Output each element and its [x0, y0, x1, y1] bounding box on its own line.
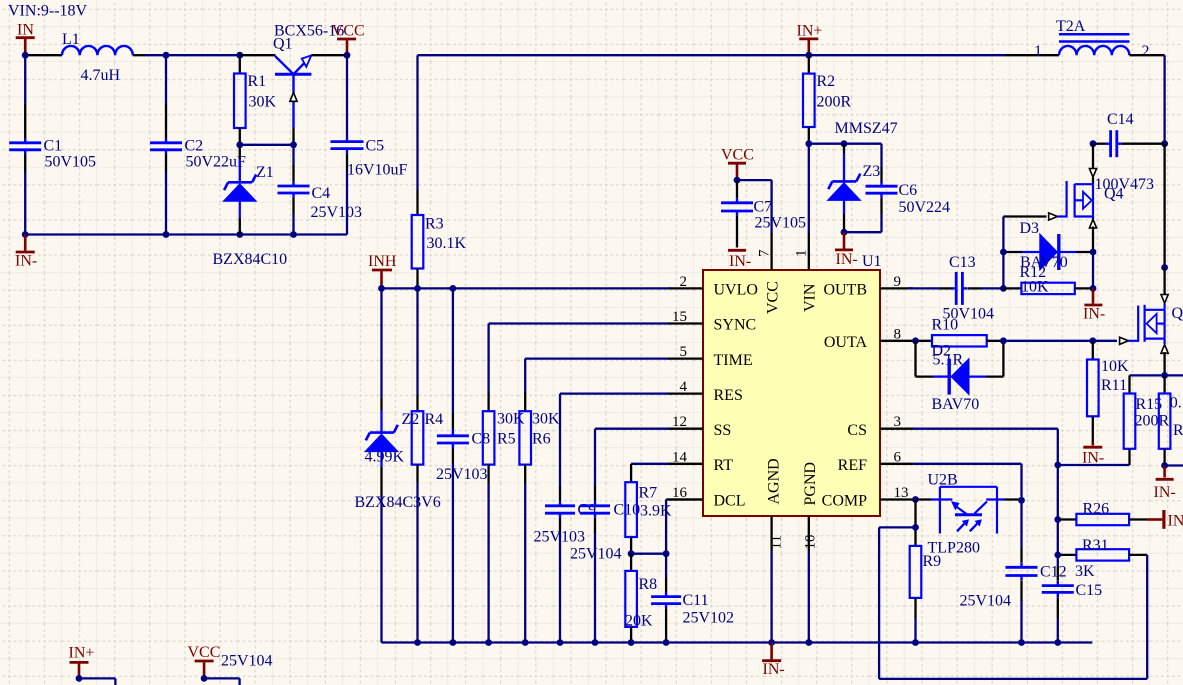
- power port VCC mid: [721, 147, 754, 181]
- U1 pin 16 DCL: [669, 485, 746, 510]
- resistor R31: [1058, 537, 1147, 580]
- wire: [240, 54, 347, 56]
- diode D2: [916, 341, 1004, 413]
- junction: [1089, 337, 1096, 344]
- U1 pin 1 VIN: [794, 233, 819, 312]
- junction: [912, 496, 919, 503]
- power port IN- under C7: [728, 250, 751, 269]
- svg-text:VCC: VCC: [764, 281, 781, 314]
- capacitor C13: [943, 254, 1004, 323]
- svg-text:14: 14: [672, 449, 688, 465]
- wire: [79, 678, 115, 685]
- svg-text:IN-: IN-: [836, 251, 858, 268]
- svg-text:R4: R4: [425, 411, 444, 428]
- wire: [1003, 287, 1021, 289]
- junction: [76, 675, 83, 682]
- capacitor C12: [960, 563, 1067, 610]
- resistor R4: [412, 288, 443, 642]
- svg-text:VIN: VIN: [802, 283, 819, 312]
- U1 pin 15 SYNC: [669, 309, 757, 334]
- junction: [22, 231, 29, 238]
- svg-text:R9: R9: [923, 553, 942, 570]
- svg-text:4: 4: [680, 379, 688, 395]
- junction: [557, 639, 564, 646]
- junction: [414, 285, 421, 292]
- junction: [344, 52, 351, 59]
- svg-text:R7: R7: [639, 485, 658, 502]
- U1 pin 6 REF: [838, 449, 913, 474]
- junction: [663, 639, 670, 646]
- resistor R9: [910, 500, 941, 643]
- U1 pin 2 UVLO: [669, 274, 758, 299]
- svg-text:C8: C8: [472, 430, 491, 447]
- capacitor C11: [651, 592, 734, 643]
- svg-text:25V104: 25V104: [570, 545, 622, 562]
- capacitor C9: [534, 501, 597, 642]
- U1 pin 14 RT: [669, 449, 734, 474]
- svg-text:PGND: PGND: [802, 462, 819, 506]
- svg-text:1: 1: [1034, 43, 1042, 60]
- U1 pin 11 AGND: [766, 458, 785, 642]
- wire: [844, 231, 882, 233]
- junction: [485, 639, 492, 646]
- junction: [1090, 140, 1097, 147]
- junction: [1090, 285, 1097, 292]
- junction: [805, 639, 812, 646]
- wire: [1092, 252, 1094, 288]
- svg-text:Z2: Z2: [402, 411, 420, 428]
- svg-text:12: 12: [672, 414, 687, 430]
- junction: [1054, 462, 1061, 469]
- svg-text:IN-: IN-: [15, 252, 37, 269]
- svg-text:TIME: TIME: [714, 352, 753, 369]
- svg-text:16V10uF: 16V10uF: [347, 162, 408, 179]
- resistor R10: [932, 317, 1004, 369]
- wire: [631, 553, 666, 555]
- junction: [663, 550, 670, 557]
- capacitor C1: [9, 55, 96, 234]
- wire: [1165, 464, 1183, 466]
- junction: [378, 285, 385, 292]
- wire VCC pin net: [737, 180, 772, 233]
- junction: [805, 140, 812, 147]
- resistor R11: [1087, 341, 1129, 442]
- capacitor C7: [721, 180, 806, 247]
- wire: [809, 143, 882, 145]
- svg-text:C9: C9: [578, 501, 597, 518]
- capacitor C14: [1093, 111, 1165, 193]
- zener diode Z1: [213, 145, 288, 268]
- junction: [1018, 497, 1025, 504]
- U1 pin 13 COMP: [822, 485, 913, 510]
- svg-text:VCC: VCC: [721, 147, 754, 164]
- svg-text:C11: C11: [683, 592, 709, 609]
- svg-text:11: 11: [769, 535, 785, 549]
- resistor R1: [234, 55, 277, 145]
- svg-text:R26: R26: [1083, 501, 1110, 518]
- wire TIME net: [525, 359, 670, 412]
- junction: [414, 639, 421, 646]
- svg-text:10K: 10K: [1021, 279, 1049, 296]
- svg-text:50V224: 50V224: [899, 199, 951, 216]
- svg-text:D3: D3: [1020, 220, 1040, 237]
- diode D3: [1003, 220, 1093, 271]
- junction: [1054, 552, 1061, 559]
- power port IN- bottom: [762, 643, 785, 679]
- wire REF net: [913, 464, 1022, 563]
- svg-text:BAV70: BAV70: [932, 396, 980, 413]
- svg-text:IN+: IN+: [1168, 513, 1183, 530]
- svg-text:R6: R6: [532, 430, 551, 447]
- power port IN+: [797, 22, 823, 55]
- wire CS net: [913, 429, 1058, 581]
- svg-text:C6: C6: [899, 182, 918, 199]
- junction: [628, 639, 635, 646]
- svg-text:R8: R8: [639, 576, 658, 593]
- junction: [163, 231, 170, 238]
- stray value label 25V104: [221, 653, 273, 670]
- junction: [450, 285, 457, 292]
- resistor R6: [519, 411, 560, 643]
- capacitor C8: [436, 288, 490, 642]
- junction: [805, 52, 812, 59]
- U1 pin 8 OUTA: [824, 326, 913, 351]
- svg-text:R31: R31: [1082, 537, 1109, 554]
- svg-text:15: 15: [672, 309, 687, 325]
- U1 pin 3 CS: [847, 414, 913, 439]
- capacitor C10: [570, 501, 640, 642]
- svg-text:SS: SS: [714, 422, 732, 439]
- svg-text:C15: C15: [1076, 582, 1103, 599]
- svg-text:200R: 200R: [1135, 413, 1170, 430]
- svg-text:1: 1: [794, 250, 810, 258]
- wire: [1058, 464, 1130, 466]
- inductor L1: [62, 31, 133, 84]
- net label VIN:9--18V: [8, 3, 88, 20]
- transistor Q4: [1067, 144, 1124, 252]
- power port INH: [368, 253, 397, 288]
- svg-text:4.7uH: 4.7uH: [81, 67, 121, 84]
- svg-text:R11: R11: [1101, 377, 1127, 394]
- svg-text:6: 6: [894, 449, 902, 465]
- svg-text:50V22uF: 50V22uF: [186, 153, 247, 170]
- junction: [1000, 337, 1007, 344]
- resistor R2: [803, 55, 852, 144]
- svg-text:7: 7: [757, 249, 773, 257]
- svg-text:R2: R2: [817, 73, 836, 90]
- wire: [25, 54, 62, 56]
- svg-text:C12: C12: [1040, 564, 1067, 581]
- svg-text:C14: C14: [1107, 111, 1134, 128]
- svg-text:MMSZ47: MMSZ47: [835, 120, 898, 137]
- junction: [912, 524, 919, 531]
- svg-text:3K: 3K: [1075, 563, 1095, 580]
- junction: [734, 177, 741, 184]
- wire OUTB net: [908, 287, 952, 289]
- junction: [201, 675, 208, 682]
- power port IN- under R12: [1083, 288, 1105, 322]
- svg-text:R1: R1: [248, 73, 267, 90]
- svg-text:10K: 10K: [1101, 358, 1129, 375]
- svg-text:RT: RT: [714, 457, 734, 474]
- svg-text:200R: 200R: [817, 93, 852, 110]
- svg-text:SYNC: SYNC: [714, 317, 757, 334]
- svg-text:Z1: Z1: [256, 164, 274, 181]
- svg-text:16: 16: [672, 485, 688, 501]
- junction: [1161, 140, 1168, 147]
- wire COMP net: [913, 498, 931, 500]
- junction: [1161, 462, 1168, 469]
- svg-text:50V105: 50V105: [45, 153, 97, 170]
- junction: [1161, 372, 1168, 379]
- junction: [1000, 285, 1007, 292]
- svg-text:20K: 20K: [625, 613, 653, 630]
- junction: [22, 52, 29, 59]
- svg-text:C4: C4: [312, 185, 331, 202]
- resistor R7: [625, 482, 672, 554]
- svg-text:T2A: T2A: [1056, 18, 1086, 35]
- capacitor C4: [278, 145, 363, 235]
- wire feedback loop: [879, 527, 1147, 679]
- power port IN- left: [15, 235, 37, 270]
- wire: [1130, 55, 1165, 144]
- svg-text:U1: U1: [862, 253, 882, 270]
- junction: [1161, 264, 1168, 271]
- svg-text:CS: CS: [847, 422, 867, 439]
- svg-text:10: 10: [802, 535, 818, 550]
- zener diode Z3: [828, 120, 898, 232]
- svg-text:2: 2: [680, 274, 688, 290]
- wire SYNC net: [489, 324, 670, 412]
- svg-text:BZX84C3V6: BZX84C3V6: [355, 494, 441, 511]
- svg-text:VCC: VCC: [188, 644, 221, 661]
- wire: [133, 54, 240, 56]
- power port VCC: [332, 23, 365, 56]
- op-amp U1 body: [703, 253, 882, 516]
- svg-text:4.99K: 4.99K: [365, 449, 405, 466]
- svg-text:C2: C2: [185, 138, 204, 155]
- wire DCL net: [666, 500, 703, 593]
- svg-text:D2: D2: [932, 342, 952, 359]
- svg-text:COMP: COMP: [822, 493, 867, 510]
- transistor Q5: [1120, 268, 1183, 376]
- transistor Q1: [273, 22, 344, 145]
- power port IN- under Z3: [835, 232, 858, 268]
- svg-text:UVLO: UVLO: [714, 282, 758, 299]
- wire: [204, 678, 240, 685]
- svg-text:Q1: Q1: [273, 35, 293, 52]
- svg-text:R16: R16: [1173, 422, 1183, 439]
- junction: [1054, 516, 1061, 523]
- svg-text:30K: 30K: [249, 93, 277, 110]
- svg-text:25V103: 25V103: [534, 529, 586, 546]
- junction: [236, 52, 243, 59]
- svg-text:25V103: 25V103: [436, 466, 488, 483]
- power port IN+ right: [1147, 510, 1183, 530]
- wire Q4 gate net: [1003, 213, 1066, 252]
- junction: [768, 639, 775, 646]
- svg-text:Q5: Q5: [1172, 305, 1183, 322]
- svg-text:0.1R: 0.1R: [1170, 394, 1183, 411]
- svg-text:30K: 30K: [532, 411, 560, 428]
- svg-text:2: 2: [1142, 43, 1150, 60]
- U1 pin 5 TIME: [669, 344, 753, 369]
- junction: [522, 639, 529, 646]
- resistor R5: [483, 411, 525, 643]
- wire RES net: [560, 394, 670, 502]
- svg-text:3: 3: [894, 414, 902, 430]
- wire UVLO net: [382, 287, 671, 289]
- svg-text:OUTB: OUTB: [823, 282, 867, 299]
- svg-text:REF: REF: [838, 457, 867, 474]
- svg-text:IN-: IN-: [1154, 484, 1176, 501]
- svg-text:R5: R5: [497, 430, 516, 447]
- svg-text:30K: 30K: [497, 411, 525, 428]
- svg-text:AGND: AGND: [766, 458, 783, 504]
- junction: [1054, 639, 1061, 646]
- junction: [912, 337, 919, 344]
- junction: [236, 231, 243, 238]
- resistor R26: [1058, 501, 1147, 526]
- svg-text:U2B: U2B: [928, 471, 958, 488]
- svg-text:C13: C13: [949, 254, 976, 271]
- wire ground rail: [382, 641, 1093, 643]
- wire RT net: [631, 464, 670, 482]
- wire VIN pin net: [808, 144, 810, 233]
- svg-text:25V103: 25V103: [311, 204, 363, 221]
- svg-text:IN-: IN-: [729, 253, 751, 270]
- svg-text:R3: R3: [425, 216, 444, 233]
- wire OUTA net: [913, 340, 932, 342]
- junction: [1090, 249, 1097, 256]
- svg-text:INH: INH: [368, 253, 397, 270]
- junction: [290, 141, 297, 148]
- svg-text:8: 8: [894, 326, 902, 342]
- svg-text:OUTA: OUTA: [824, 334, 868, 351]
- svg-text:L1: L1: [62, 31, 80, 48]
- U1 pin 7 VCC: [757, 233, 782, 314]
- capacitor C6: [866, 144, 951, 233]
- svg-text:DCL: DCL: [714, 493, 746, 510]
- wire: [1020, 580, 1022, 642]
- wire gnd rail left block: [25, 233, 347, 235]
- svg-text:Z3: Z3: [863, 163, 881, 180]
- svg-text:BZX84C10: BZX84C10: [213, 251, 288, 268]
- U1 pin 10 PGND: [802, 462, 819, 643]
- wire: [1005, 498, 1022, 500]
- wire main rail: [418, 54, 1060, 56]
- svg-text:IN+: IN+: [69, 645, 95, 662]
- svg-text:IN-: IN-: [763, 661, 785, 678]
- power port VCC bottom-left: [188, 644, 221, 678]
- junction: [236, 141, 243, 148]
- svg-text:C1: C1: [44, 138, 63, 155]
- junction: [1000, 249, 1007, 256]
- svg-text:25V102: 25V102: [683, 610, 735, 627]
- junction: [163, 52, 170, 59]
- junction: [841, 140, 848, 147]
- svg-text:25V105: 25V105: [755, 215, 807, 232]
- zener diode Z2: [355, 288, 441, 642]
- wire: [1163, 144, 1165, 268]
- resistor R15: [1124, 394, 1170, 466]
- transformer T2A: [1034, 18, 1150, 60]
- wire: [240, 144, 294, 146]
- U1 pin 4 RES: [669, 379, 743, 404]
- svg-text:VIN:9--18V: VIN:9--18V: [8, 3, 88, 20]
- capacitor C2: [150, 55, 246, 234]
- capacitor C15: [1042, 581, 1102, 643]
- resistor R8: [625, 554, 657, 643]
- svg-text:R10: R10: [932, 317, 959, 334]
- svg-text:5: 5: [680, 344, 688, 360]
- power port IN- under R16: [1154, 466, 1176, 501]
- svg-text:25V104: 25V104: [960, 593, 1012, 610]
- svg-text:IN: IN: [17, 21, 34, 38]
- junction: [841, 229, 848, 236]
- U1 pin 9 OUTB: [823, 274, 913, 299]
- junction: [450, 639, 457, 646]
- junction: [912, 639, 919, 646]
- optocoupler U2B: [928, 471, 1005, 556]
- junction: [1018, 639, 1025, 646]
- resistor R16: [1159, 375, 1183, 465]
- wire SS net: [595, 429, 670, 502]
- svg-text:9: 9: [894, 274, 902, 290]
- resistor R12: [1020, 264, 1094, 295]
- wire: [1003, 340, 1117, 342]
- resistor R3: [412, 55, 467, 288]
- svg-text:IN+: IN+: [797, 22, 823, 39]
- power port IN+ bottom-left: [69, 645, 95, 679]
- junction: [628, 550, 635, 557]
- svg-text:13: 13: [894, 485, 909, 501]
- svg-text:30.1K: 30.1K: [427, 235, 467, 252]
- svg-text:VCC: VCC: [332, 23, 365, 40]
- wire: [1130, 375, 1183, 393]
- svg-text:C5: C5: [366, 138, 385, 155]
- svg-text:IN-: IN-: [1083, 306, 1105, 323]
- power port IN- under R11: [1082, 442, 1104, 467]
- capacitor C5: [331, 55, 408, 234]
- junction: [592, 639, 599, 646]
- power port IN: [16, 21, 35, 55]
- svg-text:C7: C7: [754, 199, 773, 216]
- U1 pin 12 SS: [669, 414, 732, 439]
- wire: [1002, 252, 1004, 288]
- svg-text:25V104: 25V104: [221, 653, 273, 670]
- svg-text:RES: RES: [714, 387, 743, 404]
- svg-text:Q4: Q4: [1104, 185, 1124, 202]
- junction: [290, 231, 297, 238]
